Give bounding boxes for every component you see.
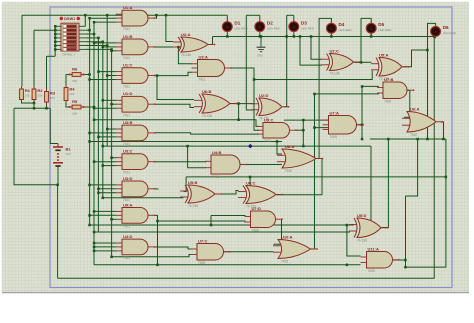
- svg-text:U8:A: U8:A: [285, 144, 294, 149]
- XOR gate U2:C top: [322, 48, 361, 75]
- wire R1 R2 bottom: [22, 102, 35, 103]
- svg-text:U1:B: U1:B: [123, 34, 132, 39]
- wire D6 cathode to bottom rail: [58, 37, 435, 279]
- junction: [88, 224, 91, 227]
- svg-text:LED-RED: LED-RED: [378, 28, 392, 32]
- junction: [102, 99, 105, 102]
- AND gate U3:C: [116, 149, 155, 175]
- svg-text:D5: D5: [378, 22, 384, 27]
- junction: [426, 138, 429, 141]
- svg-text:7408: 7408: [330, 135, 337, 139]
- wire feed U7:D in2: [158, 220, 246, 222]
- OR gate U6:A: [402, 106, 443, 137]
- resistor R3: [45, 89, 56, 105]
- wire bus feed: [107, 75, 116, 77]
- svg-text:10k: 10k: [69, 92, 74, 96]
- wire U3:C out to U4:B: [155, 161, 207, 163]
- junction: [88, 29, 91, 32]
- junction DSW1 left pin: [54, 44, 57, 47]
- wire U1:A out join: [155, 15, 157, 18]
- svg-text:R2: R2: [37, 88, 43, 93]
- svg-text:U5:A: U5:A: [379, 52, 388, 57]
- wire R4 top: [65, 75, 67, 86]
- wire net H146: [103, 145, 371, 147]
- wire U1:B to U2:A in2: [155, 46, 174, 48]
- svg-text:R4: R4: [69, 87, 75, 92]
- junction: [237, 119, 240, 122]
- LED D2: [255, 20, 281, 34]
- wire long rail H177: [186, 176, 446, 178]
- wire feed U5:B in2: [103, 197, 184, 199]
- junction: [259, 35, 262, 38]
- junction: [88, 73, 91, 76]
- svg-text:7411: 7411: [123, 56, 130, 60]
- wire U11:A in1 feed: [347, 225, 361, 256]
- svg-text:7411: 7411: [123, 256, 130, 260]
- junction: [177, 46, 180, 49]
- wire rail to U6:C in2: [249, 177, 251, 199]
- svg-text:U4:B: U4:B: [212, 150, 221, 155]
- svg-text:U7:C: U7:C: [198, 238, 207, 243]
- junction: [110, 256, 113, 259]
- svg-text:U11:A: U11:A: [368, 246, 379, 251]
- XOR gate U5:A: [371, 52, 409, 81]
- wire LED cathode stub: [259, 33, 261, 36]
- wire bus vertical: [89, 18, 91, 225]
- wire rail to U2:A in1: [166, 15, 173, 41]
- AND gate U4:D: [116, 234, 155, 260]
- wire bus feed: [112, 103, 116, 105]
- svg-text:U1:C: U1:C: [123, 63, 132, 68]
- wire feed U5:A in2: [254, 71, 372, 80]
- LED D6: [431, 25, 457, 39]
- wire V371 to U5:D line: [370, 146, 372, 225]
- svg-text:10k: 10k: [72, 112, 77, 116]
- wire bus feed: [107, 128, 116, 130]
- svg-text:7411: 7411: [123, 171, 130, 175]
- junction: [54, 29, 57, 32]
- junction: [226, 35, 229, 38]
- AND gate U1:B: [116, 34, 155, 60]
- LED D3: [289, 20, 315, 34]
- junction: [404, 259, 407, 262]
- wire R2 top to DSW1: [34, 29, 55, 31]
- wire bus feed: [90, 132, 116, 134]
- wire bus vertical: [93, 22, 95, 265]
- junction: [155, 14, 158, 17]
- svg-text:D3: D3: [301, 20, 307, 25]
- wire net V418: [406, 139, 418, 196]
- junction: [346, 224, 349, 227]
- wire DSW1 right pin link: [85, 41, 103, 43]
- wire LED cathode stub: [330, 33, 332, 36]
- wire battery bottom stub: [57, 166, 59, 185]
- wire battery top feed: [50, 108, 58, 143]
- svg-text:7408: 7408: [198, 261, 205, 265]
- svg-text:10k: 10k: [50, 96, 55, 100]
- junction: [210, 224, 213, 227]
- svg-text:U10:A: U10:A: [281, 234, 293, 239]
- LED D1: [222, 20, 248, 34]
- junction: [249, 176, 252, 179]
- AND gate U7:D: [245, 206, 283, 233]
- XOR gate U2:A: [173, 32, 215, 57]
- wire bus feed: [98, 71, 116, 73]
- AND gate U9:C: [257, 117, 297, 143]
- svg-text:U2:A: U2:A: [181, 32, 190, 37]
- wire bus vertical: [84, 15, 86, 26]
- wire bus feed: [94, 107, 116, 109]
- junction: [93, 21, 96, 24]
- junction DSW1 left pin: [54, 25, 57, 28]
- wire LED cathode stub: [226, 33, 228, 36]
- wire R3 top feed: [46, 56, 48, 89]
- wire LED cathode rail: [213, 36, 436, 38]
- wire bus feed: [90, 214, 116, 216]
- wire R3 bottom: [46, 105, 48, 109]
- svg-text:7411: 7411: [123, 224, 130, 228]
- wire U2:D out to D3: [284, 15, 287, 107]
- wire DSW1 right pin link: [85, 29, 89, 31]
- wire U10:A out up: [311, 94, 315, 249]
- svg-text:7432: 7432: [410, 133, 417, 137]
- svg-text:R3: R3: [50, 91, 56, 96]
- junction: [110, 157, 113, 160]
- wire R2 bottom: [33, 102, 35, 108]
- junction: [445, 176, 448, 179]
- wire U9:B out drop: [441, 122, 444, 139]
- wire rail to U4:B in2: [188, 146, 206, 168]
- svg-text:7411: 7411: [123, 142, 130, 146]
- junction: [97, 192, 100, 195]
- svg-text:7411: 7411: [123, 198, 130, 202]
- junction: [45, 107, 48, 110]
- junction: [302, 145, 305, 148]
- wire bus vertical: [111, 49, 113, 256]
- junction: [33, 107, 36, 110]
- junction: [156, 264, 159, 267]
- svg-text:LED-RED: LED-RED: [443, 31, 457, 35]
- junction: [56, 184, 59, 187]
- svg-text:10k: 10k: [37, 94, 42, 98]
- wire feed U7:A in2: [315, 127, 332, 129]
- resistor R4: [64, 85, 75, 103]
- svg-text:D2: D2: [267, 20, 273, 25]
- junction: [93, 250, 96, 253]
- wire U1:B line to U3:A in1: [178, 47, 192, 64]
- svg-text:7432: 7432: [285, 169, 292, 173]
- DIP switch DSW1: [55, 17, 85, 57]
- junction: [442, 138, 445, 141]
- AND gate U11:A: [361, 246, 400, 273]
- XOR gate U5:B: [180, 180, 222, 208]
- resistor R6: [69, 66, 85, 83]
- wire bus feed: [98, 188, 116, 190]
- wire bus feed: [103, 165, 116, 167]
- OR gate U8:A: [277, 144, 323, 173]
- junction: [88, 17, 91, 20]
- svg-text:U7:A: U7:A: [330, 110, 339, 115]
- AND gate U9:A: [116, 202, 155, 228]
- wire feed U7:B in1: [362, 85, 379, 87]
- svg-text:DIPSW_7: DIPSW_7: [63, 53, 77, 57]
- junction DSW1 left pin: [54, 48, 57, 51]
- wire feed U8:A: [90, 141, 282, 143]
- AND gate U7:B: [377, 77, 414, 104]
- junction: [93, 107, 96, 110]
- junction: [97, 136, 100, 139]
- wire LED cathode stub: [293, 33, 295, 36]
- svg-text:10k: 10k: [25, 94, 30, 98]
- wire bus feed: [112, 218, 116, 220]
- svg-text:7411: 7411: [123, 85, 130, 89]
- svg-text:LED-RED: LED-RED: [301, 26, 315, 30]
- wire feed U7:D in1: [211, 215, 246, 217]
- junction: [361, 124, 364, 127]
- junction: [93, 106, 96, 109]
- wire feed U7:C in2: [112, 255, 191, 257]
- junction: [404, 266, 407, 269]
- wire net V362: [361, 86, 363, 139]
- junction: [106, 14, 109, 17]
- svg-text:74-136: 74-136: [181, 53, 191, 57]
- svg-text:U4:D: U4:D: [123, 234, 132, 239]
- LED D5: [366, 21, 392, 35]
- wire bus feed: [103, 99, 116, 101]
- svg-text:7411: 7411: [123, 27, 130, 31]
- junction: [110, 48, 113, 51]
- wire U1:C to U6:B in1: [157, 76, 194, 100]
- junction: [93, 246, 96, 249]
- junction: [387, 138, 390, 141]
- node junction diamond: [248, 144, 253, 149]
- wire U6:B out to U2:D in1: [231, 103, 254, 105]
- junction: [110, 50, 113, 53]
- junction: [253, 78, 256, 81]
- resistor R2: [32, 87, 43, 103]
- svg-text:7408: 7408: [252, 229, 259, 233]
- junction: [313, 126, 316, 129]
- wire U5:D out up: [382, 139, 389, 228]
- AND gate U3:D: [116, 176, 155, 202]
- wire R6 to bus: [84, 74, 90, 76]
- wire bus feed: [90, 79, 116, 81]
- wire DSW1 common down: [54, 26, 56, 56]
- OR gate U10:A: [273, 234, 318, 263]
- junction: [276, 140, 279, 143]
- wire U5:A out up: [403, 50, 428, 67]
- svg-text:U7:D: U7:D: [252, 206, 261, 211]
- junction: [110, 103, 113, 106]
- wire feed U9:C in1: [94, 120, 259, 127]
- wire V211: [210, 216, 212, 226]
- svg-text:DSW1: DSW1: [64, 17, 75, 21]
- wire bus vertical: [106, 15, 108, 146]
- wire U5:B out to U6:C in1: [216, 191, 239, 195]
- wire feed U11:A in2: [94, 264, 361, 266]
- wire bus feed: [94, 161, 116, 163]
- wire D2 anode loop leg: [246, 15, 253, 110]
- wire bus feed: [103, 46, 116, 48]
- wire R6 left: [66, 74, 70, 76]
- junction: [33, 102, 36, 105]
- wire battery bottom down: [57, 185, 59, 278]
- wire U6:C out to U8 net: [277, 159, 323, 195]
- junction: [293, 35, 296, 38]
- junction: [88, 184, 91, 187]
- svg-text:U3:B: U3:B: [123, 120, 132, 125]
- svg-text:U7:B: U7:B: [384, 77, 393, 82]
- svg-text:U2:C: U2:C: [330, 48, 339, 53]
- wire bus feed: [98, 192, 116, 194]
- junction: [416, 138, 419, 141]
- LED D4: [327, 21, 353, 35]
- wire R1 top feed: [21, 15, 23, 86]
- wire U1:C to U3:A: [157, 72, 192, 75]
- wire feed U7:A in1: [284, 119, 331, 121]
- wire bus feed: [98, 136, 116, 138]
- AND gate U7:C: [191, 238, 231, 265]
- junction: [302, 119, 305, 122]
- wire feed U1:A in2: [90, 17, 116, 19]
- wire bus feed: [94, 242, 116, 244]
- svg-text:7411: 7411: [264, 139, 271, 143]
- junction: [360, 61, 363, 64]
- wire U3:B out to U9:C in3: [155, 133, 260, 134]
- wire R2 top feed: [33, 30, 35, 86]
- wire bus vertical: [97, 38, 99, 232]
- wire D2 to ground: [260, 37, 262, 45]
- junction: [84, 14, 87, 17]
- wire R4 bottom to R5: [66, 103, 70, 107]
- svg-text:7432: 7432: [281, 260, 288, 264]
- wire D2 anode loop top: [246, 14, 259, 16]
- junction: [93, 210, 96, 213]
- svg-text:B1: B1: [66, 147, 72, 152]
- svg-text:U6:C: U6:C: [246, 180, 255, 185]
- junction DSW1 left pin: [54, 37, 57, 40]
- wire D1 anode: [226, 15, 228, 22]
- svg-text:7408: 7408: [212, 175, 219, 179]
- wire R5 to bus: [84, 106, 95, 108]
- junction: [93, 42, 96, 45]
- junction: [302, 129, 305, 132]
- wire DSW1 right pin link: [85, 37, 98, 39]
- junction: [93, 119, 96, 122]
- svg-text:R5: R5: [72, 99, 78, 104]
- wire top rail / U1:A to D1: [22, 14, 227, 16]
- svg-text:U3:D: U3:D: [123, 176, 132, 181]
- wire bus feed: [94, 42, 116, 44]
- wire U3:A out to U9:C in2: [231, 68, 259, 130]
- wire feed U7:B in2: [315, 93, 380, 95]
- wire DSW1 right pin link: [85, 48, 111, 50]
- wire long feed U5:D in1: [90, 224, 354, 226]
- junction: [106, 74, 109, 77]
- wire net V405: [405, 196, 407, 267]
- svg-text:7411: 7411: [199, 78, 206, 82]
- wire bus vertical: [102, 42, 104, 198]
- svg-text:R6: R6: [72, 66, 78, 71]
- AND gate U1:D: [116, 91, 155, 117]
- junction: [102, 145, 105, 148]
- AND gate U7:A: [323, 110, 364, 139]
- wire D6 anode loop: [428, 23, 436, 139]
- wire feed U1:A in3: [94, 21, 116, 23]
- junction: [260, 35, 263, 38]
- junction: [310, 35, 313, 38]
- wire D3 anode loop top: [287, 14, 294, 16]
- svg-text:U9:C: U9:C: [264, 117, 273, 122]
- svg-text:LED-RED: LED-RED: [339, 28, 353, 32]
- junction: [285, 35, 288, 38]
- wire DSW1 right pin link: [85, 45, 107, 47]
- svg-text:LED-RED: LED-RED: [234, 26, 248, 30]
- junction: [102, 46, 105, 49]
- svg-text:U6:A: U6:A: [410, 106, 419, 111]
- AND gate U3:B: [116, 120, 155, 146]
- wire bus feed: [94, 250, 116, 252]
- svg-text:74-136: 74-136: [202, 114, 212, 118]
- svg-text:U3:C: U3:C: [123, 149, 132, 154]
- AND gate U1:A: [116, 5, 155, 31]
- battery B1: [53, 144, 71, 167]
- wire U6:B out drop: [238, 104, 240, 120]
- wire U4:B to U8:A in2: [241, 164, 283, 166]
- junction: [88, 140, 91, 143]
- AND gate U1:C: [116, 63, 155, 89]
- wire DSW1 right pin link: [85, 33, 94, 35]
- junction: [88, 132, 91, 135]
- XOR gate U5:D: [349, 213, 388, 243]
- svg-text:LED-RED: LED-RED: [267, 26, 281, 30]
- junction: [237, 102, 240, 105]
- ground: [257, 44, 266, 57]
- wire rail to U5:B in1: [184, 177, 187, 192]
- svg-text:R1: R1: [25, 88, 31, 93]
- wire long feed U5:D in2: [94, 231, 350, 233]
- AND gate U4:B: [205, 150, 247, 179]
- svg-text:12V: 12V: [66, 152, 71, 156]
- wire R3 top to DSW1 common: [47, 55, 56, 57]
- resistor R1: [20, 87, 31, 103]
- wire feed U1:A in1 jog: [115, 14, 117, 15]
- wire U4:D out to U7:C: [155, 247, 192, 249]
- svg-text:U5:B: U5:B: [188, 180, 197, 185]
- wire U1:D to U6:B: [155, 104, 195, 107]
- svg-text:7408: 7408: [384, 100, 391, 104]
- svg-text:74-136: 74-136: [188, 204, 198, 208]
- junction: [106, 128, 109, 131]
- wire U2:C out to U5:A in1: [361, 61, 372, 63]
- junction: [313, 93, 316, 96]
- junction: [97, 188, 100, 191]
- wire U7:D to U10:A: [274, 219, 282, 244]
- junction DSW1 left pin: [54, 29, 57, 32]
- svg-text:GND: GND: [257, 54, 263, 58]
- svg-text:7411: 7411: [123, 113, 130, 117]
- svg-text:U9:A: U9:A: [123, 202, 132, 207]
- wire U9:A out drop: [155, 215, 158, 264]
- wire U3:D out stub: [155, 188, 159, 190]
- wire U2:B in2: [300, 37, 322, 66]
- wire bus feed: [112, 157, 116, 159]
- wire U2:C out to D5: [354, 18, 371, 62]
- svg-text:D4: D4: [339, 22, 345, 27]
- junction: [97, 37, 100, 40]
- wire U1:C out tee: [155, 75, 158, 77]
- wire battery return: [14, 108, 58, 185]
